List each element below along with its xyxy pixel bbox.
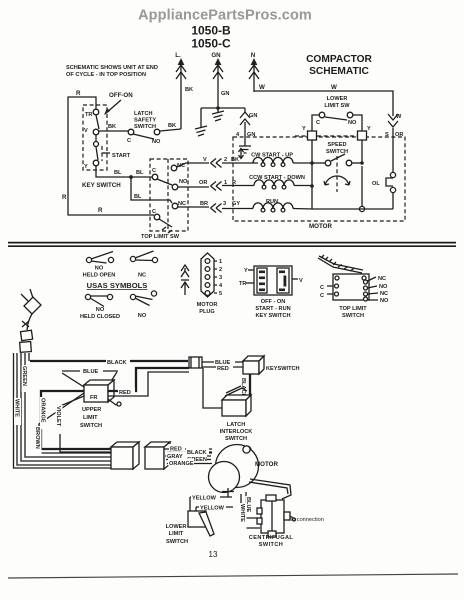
svg-text:FR: FR bbox=[90, 395, 97, 401]
svg-text:GN: GN bbox=[211, 52, 221, 59]
svg-text:N: N bbox=[251, 52, 256, 59]
svg-text:ORANGE: ORANGE bbox=[169, 461, 194, 467]
svg-text:TOP LIMIT SW: TOP LIMIT SW bbox=[141, 234, 180, 240]
svg-text:V: V bbox=[84, 128, 88, 134]
svg-text:C: C bbox=[152, 168, 156, 174]
svg-text:SAFETY: SAFETY bbox=[134, 118, 156, 124]
svg-text:START: START bbox=[112, 153, 131, 159]
svg-text:R: R bbox=[98, 207, 103, 214]
svg-text:KEY SWITCH: KEY SWITCH bbox=[82, 182, 121, 189]
svg-text:SCHEMATIC SHOWS UNIT AT END: SCHEMATIC SHOWS UNIT AT END bbox=[66, 65, 158, 71]
svg-text:LOWER: LOWER bbox=[327, 96, 348, 102]
svg-text:OF CYCLE - IN TOP POSITION: OF CYCLE - IN TOP POSITION bbox=[66, 72, 146, 78]
svg-text:COMPACTOR: COMPACTOR bbox=[306, 54, 372, 65]
svg-text:LIMIT: LIMIT bbox=[169, 531, 184, 537]
svg-text:KEY SWITCH: KEY SWITCH bbox=[255, 313, 290, 319]
svg-text:1: 1 bbox=[219, 259, 222, 265]
svg-text:MOTOR: MOTOR bbox=[255, 461, 278, 468]
svg-text:C: C bbox=[127, 138, 131, 144]
svg-text:R: R bbox=[62, 194, 67, 201]
svg-text:NC: NC bbox=[380, 291, 388, 297]
svg-text:BLUE: BLUE bbox=[83, 369, 98, 375]
svg-text:GN: GN bbox=[249, 113, 257, 119]
svg-text:Y: Y bbox=[84, 164, 88, 170]
svg-text:R: R bbox=[76, 90, 81, 97]
svg-text:BK: BK bbox=[185, 87, 193, 93]
svg-text:C: C bbox=[320, 285, 324, 291]
svg-text:no connection: no connection bbox=[289, 517, 324, 523]
svg-text:Y: Y bbox=[302, 126, 306, 132]
svg-text:NO: NO bbox=[179, 179, 188, 185]
svg-text:1050-B: 1050-B bbox=[191, 24, 231, 38]
svg-text:LATCH: LATCH bbox=[227, 422, 246, 428]
svg-text:BL: BL bbox=[136, 170, 144, 176]
svg-text:3: 3 bbox=[223, 201, 226, 207]
svg-text:AppliancePartsPros.com: AppliancePartsPros.com bbox=[138, 8, 312, 24]
svg-text:S: S bbox=[385, 132, 389, 138]
svg-text:NO: NO bbox=[380, 298, 389, 304]
svg-text:1: 1 bbox=[224, 180, 227, 186]
svg-text:USAS SYMBOLS: USAS SYMBOLS bbox=[87, 281, 148, 290]
svg-text:LATCH: LATCH bbox=[134, 111, 153, 117]
svg-text:RED: RED bbox=[217, 366, 229, 372]
svg-text:GN: GN bbox=[221, 91, 229, 97]
svg-text:BK: BK bbox=[168, 123, 176, 129]
svg-text:3: 3 bbox=[219, 275, 222, 281]
svg-text:BLACK: BLACK bbox=[107, 360, 127, 366]
svg-text:HELD CLOSED: HELD CLOSED bbox=[80, 314, 120, 320]
svg-text:L.: L. bbox=[175, 52, 181, 59]
svg-text:OL: OL bbox=[372, 181, 380, 187]
svg-text:1050-C: 1050-C bbox=[191, 37, 231, 51]
svg-text:C: C bbox=[320, 293, 324, 299]
svg-text:Y: Y bbox=[244, 268, 248, 274]
svg-text:LIMIT SW: LIMIT SW bbox=[324, 103, 350, 109]
svg-text:SPEED: SPEED bbox=[328, 142, 347, 148]
svg-text:RED: RED bbox=[119, 390, 131, 396]
svg-text:V: V bbox=[203, 157, 207, 163]
svg-text:SWITCH: SWITCH bbox=[80, 423, 102, 429]
svg-text:MOTOR: MOTOR bbox=[309, 223, 332, 230]
svg-text:BL: BL bbox=[134, 194, 142, 200]
svg-text:OFF-ON: OFF-ON bbox=[109, 92, 133, 99]
svg-text:INTERLOCK: INTERLOCK bbox=[220, 429, 253, 435]
svg-text:BROWN: BROWN bbox=[34, 427, 40, 449]
svg-text:NC: NC bbox=[178, 201, 186, 207]
svg-text:KEYSWITCH: KEYSWITCH bbox=[266, 366, 300, 372]
svg-text:ORANGE: ORANGE bbox=[40, 398, 46, 423]
svg-text:YELLOW: YELLOW bbox=[192, 496, 217, 502]
svg-text:GREEN: GREEN bbox=[21, 366, 27, 386]
svg-text:NC: NC bbox=[378, 276, 386, 282]
svg-text:MOTOR: MOTOR bbox=[197, 302, 218, 308]
svg-text:LOWER: LOWER bbox=[166, 524, 187, 530]
svg-text:CENTRIFUGAL: CENTRIFUGAL bbox=[249, 535, 294, 541]
svg-text:VIOLET: VIOLET bbox=[55, 406, 61, 427]
svg-text:SWITCH: SWITCH bbox=[225, 436, 247, 442]
svg-text:PLUG: PLUG bbox=[199, 309, 215, 315]
svg-text:START - RUN: START - RUN bbox=[255, 306, 290, 312]
svg-text:W: W bbox=[396, 114, 402, 120]
svg-text:WHITE: WHITE bbox=[14, 399, 20, 417]
svg-text:WHITE: WHITE bbox=[239, 504, 245, 522]
svg-text:OFF - ON: OFF - ON bbox=[261, 299, 286, 305]
svg-text:BR: BR bbox=[200, 201, 208, 207]
svg-text:W: W bbox=[331, 84, 337, 91]
svg-text:C: C bbox=[316, 120, 320, 126]
svg-text:SCHEMATIC: SCHEMATIC bbox=[309, 66, 369, 77]
svg-text:SWITCH: SWITCH bbox=[166, 539, 188, 545]
svg-text:NO: NO bbox=[95, 266, 104, 272]
svg-text:OR: OR bbox=[395, 132, 403, 138]
svg-text:NO: NO bbox=[138, 313, 147, 319]
svg-text:NC: NC bbox=[138, 273, 146, 279]
svg-text:Y: Y bbox=[367, 126, 371, 132]
svg-text:TR: TR bbox=[239, 281, 246, 287]
svg-text:TR: TR bbox=[85, 112, 92, 118]
svg-text:SWITCH: SWITCH bbox=[259, 542, 283, 548]
svg-text:NO: NO bbox=[152, 139, 161, 145]
svg-text:2: 2 bbox=[219, 267, 222, 273]
svg-text:UPPER: UPPER bbox=[82, 407, 101, 413]
svg-text:BK: BK bbox=[108, 124, 116, 130]
svg-text:BL: BL bbox=[114, 170, 122, 176]
svg-text:LIMIT: LIMIT bbox=[83, 415, 98, 421]
svg-text:NO: NO bbox=[348, 120, 357, 126]
svg-text:2: 2 bbox=[224, 157, 227, 163]
svg-text:C: C bbox=[152, 209, 156, 215]
svg-text:SWITCH: SWITCH bbox=[342, 313, 364, 319]
svg-text:NO: NO bbox=[96, 307, 105, 313]
svg-text:TOP LIMIT: TOP LIMIT bbox=[339, 306, 367, 312]
svg-text:V: V bbox=[299, 278, 303, 284]
svg-text:5: 5 bbox=[219, 291, 222, 297]
svg-text:NO: NO bbox=[379, 284, 388, 290]
svg-text:W: W bbox=[259, 84, 265, 91]
svg-text:OR: OR bbox=[199, 180, 207, 186]
svg-text:HELD OPEN: HELD OPEN bbox=[83, 273, 116, 279]
svg-text:BK: BK bbox=[231, 157, 239, 163]
svg-text:SWITCH: SWITCH bbox=[134, 124, 156, 130]
svg-text:13: 13 bbox=[209, 550, 218, 559]
